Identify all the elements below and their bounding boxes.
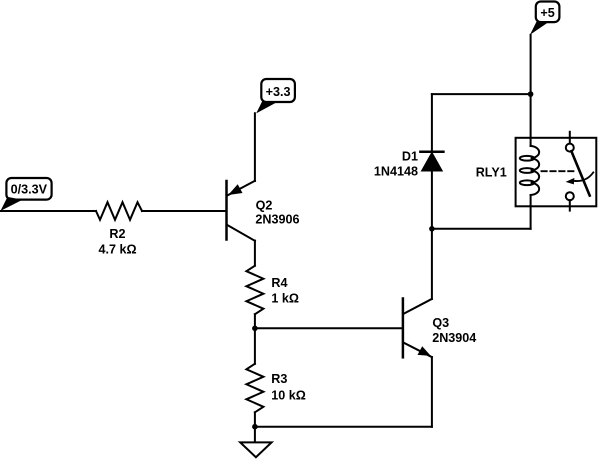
svg-text:0/3.3V: 0/3.3V (11, 183, 48, 197)
svg-text:R4: R4 (271, 276, 287, 290)
transistor Q2 (227, 181, 255, 241)
wire (254, 328, 256, 364)
junction (429, 226, 435, 232)
wire (432, 93, 531, 95)
junction (252, 326, 258, 332)
wire (431, 171, 433, 229)
svg-text:R2: R2 (109, 227, 125, 241)
wire (432, 228, 531, 230)
svg-text:D1: D1 (402, 150, 418, 164)
ground (240, 427, 271, 458)
svg-text:+3.3: +3.3 (266, 85, 291, 99)
wire (431, 94, 433, 152)
wire (142, 210, 225, 212)
wire (431, 229, 433, 299)
wire (255, 327, 402, 329)
svg-text:Q3: Q3 (432, 316, 449, 330)
wire (254, 241, 256, 266)
power flag +5 (530, 2, 559, 35)
wire (530, 35, 532, 146)
relay RLY1 (516, 132, 597, 211)
wire (431, 357, 433, 427)
wire (254, 412, 256, 426)
svg-text:RLY1: RLY1 (476, 166, 507, 180)
junction (252, 424, 258, 430)
net flag 0/3.3V (1, 178, 52, 211)
svg-text:4.7 kΩ: 4.7 kΩ (98, 243, 136, 257)
svg-text:+5: +5 (540, 6, 554, 20)
transistor Q3 (403, 299, 432, 358)
svg-text:Q2: Q2 (256, 198, 273, 212)
svg-text:2N3906: 2N3906 (255, 212, 299, 226)
svg-text:2N3904: 2N3904 (432, 331, 476, 345)
wire (254, 314, 256, 328)
diode D1 (420, 152, 443, 171)
svg-text:10 kΩ: 10 kΩ (271, 388, 306, 402)
wire (254, 113, 256, 181)
wire (255, 426, 432, 428)
svg-text:1 kΩ: 1 kΩ (271, 291, 299, 305)
svg-text:1N4148: 1N4148 (374, 164, 418, 178)
wire (530, 195, 532, 229)
junction (528, 91, 534, 97)
resistor R4 (246, 266, 263, 315)
svg-text:R3: R3 (271, 372, 287, 386)
resistor R2 (96, 202, 142, 220)
wire (1, 210, 97, 212)
resistor R3 (246, 364, 263, 413)
power flag +3.3 (256, 79, 295, 113)
